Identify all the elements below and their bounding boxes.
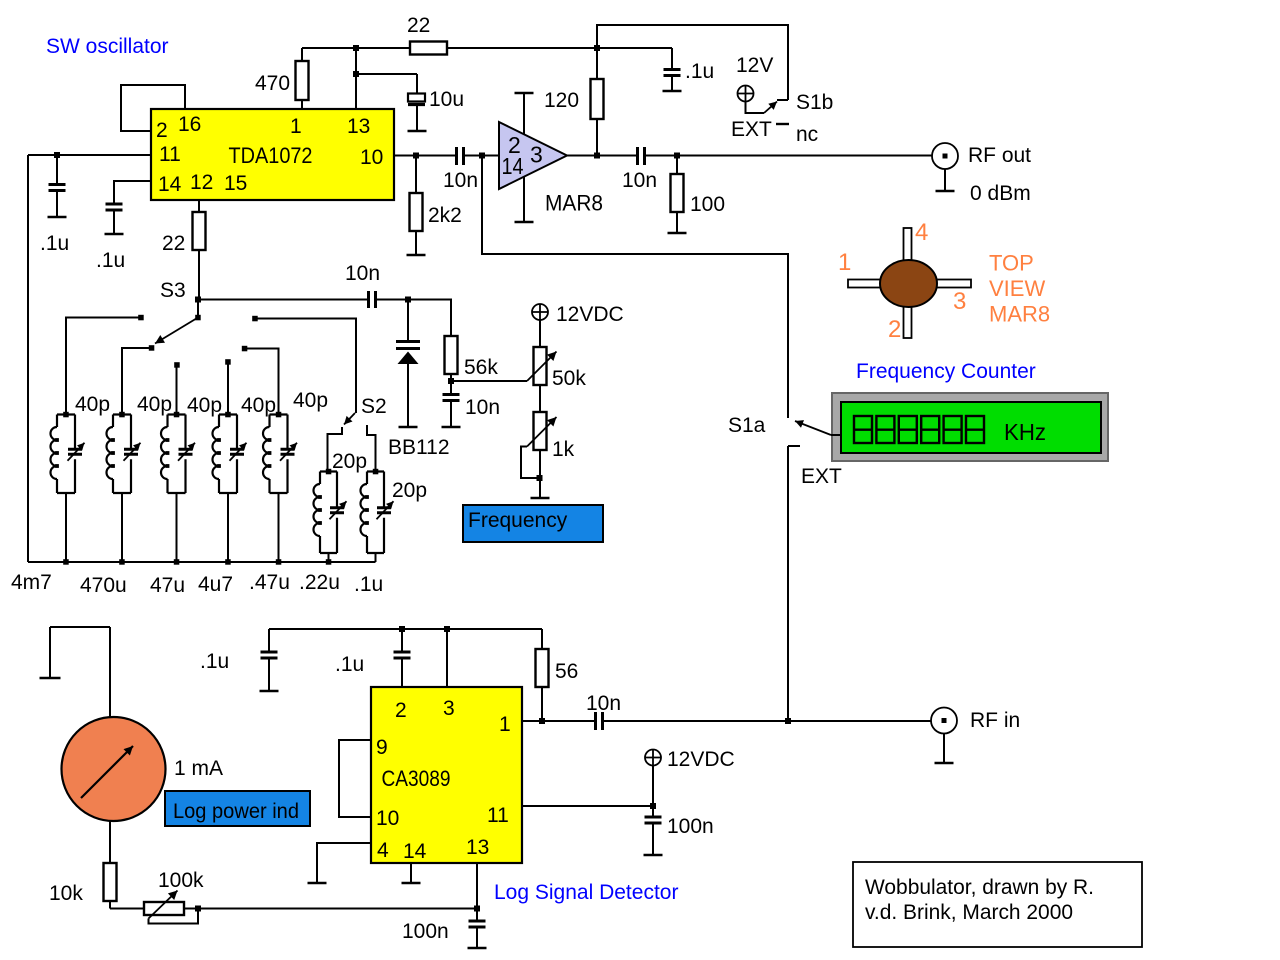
svg-text:47u: 47u — [150, 574, 185, 597]
title box — [853, 862, 1142, 947]
node tank2 top — [119, 412, 125, 418]
capacitor .1u at pin2 — [401, 629, 403, 652]
svg-text:RF out: RF out — [968, 144, 1031, 167]
svg-text:EXT: EXT — [731, 118, 772, 141]
node pin11/C1 — [54, 152, 60, 158]
capacitor 10n at varicap — [450, 381, 452, 394]
capacitor .1u top right — [671, 48, 673, 69]
svg-text:nc: nc — [796, 123, 818, 146]
wire tank5 bottom lead — [278, 493, 280, 562]
svg-text:12: 12 — [190, 171, 213, 194]
node EXT line — [785, 718, 791, 724]
frequency counter display frame — [832, 393, 1108, 461]
connector RF out — [932, 143, 958, 169]
MAR8 top pin stub — [523, 93, 525, 135]
wire to 56 — [541, 629, 543, 649]
wire pin11 — [522, 805, 653, 807]
resistor 2k2 — [415, 156, 417, 194]
svg-text:S2: S2 — [361, 395, 387, 418]
svg-text:1: 1 — [499, 713, 511, 736]
svg-text:15: 15 — [224, 172, 247, 195]
wire top y48 — [302, 47, 410, 49]
meter M1 1mA — [62, 717, 166, 821]
power symbol 12VDC — [532, 304, 548, 320]
svg-text:10: 10 — [376, 807, 399, 830]
svg-text:CA3089: CA3089 — [382, 766, 451, 791]
svg-text:TDA1072: TDA1072 — [229, 143, 313, 168]
svg-text:Log power ind: Log power ind — [173, 800, 299, 823]
node 100 tap — [674, 153, 680, 159]
wire pin9 to pin10 loop — [339, 740, 371, 817]
S3 contact 4 — [225, 359, 231, 365]
wire to pin13 — [184, 908, 477, 910]
svg-text:14: 14 — [403, 840, 427, 863]
label box Log power ind — [165, 791, 310, 826]
LC tank 3 inductor+trimmer 40p — [168, 415, 186, 494]
svg-text:22: 22 — [407, 14, 430, 37]
wire contact2 to tank2 — [122, 348, 152, 415]
switch S1b — [746, 102, 765, 114]
varicap diode BB112 — [407, 300, 409, 342]
wire to MAR8 input — [464, 155, 499, 157]
capacitor 10n coupling 1 — [457, 147, 464, 165]
svg-text:10n: 10n — [465, 396, 500, 419]
svg-text:10n: 10n — [443, 169, 478, 192]
node tank1 top — [63, 412, 68, 418]
resistor 100 — [676, 156, 678, 175]
potentiometer 50k — [534, 347, 547, 385]
MAR8 package body — [880, 260, 937, 307]
wire 100k wiper hook — [149, 909, 199, 924]
svg-text:13: 13 — [347, 115, 370, 138]
node tank6 top — [326, 469, 332, 475]
resistor 22 horizontal — [410, 42, 447, 55]
wire top rail CA3089 — [269, 628, 542, 630]
meter needle — [81, 746, 133, 798]
wire to 56k — [408, 300, 451, 337]
node tank2 bus — [119, 559, 125, 565]
node MAR8 input — [479, 153, 485, 159]
svg-text:100: 100 — [690, 193, 725, 216]
node pin13 — [474, 906, 480, 912]
svg-text:10: 10 — [360, 146, 383, 169]
wire to RF out — [645, 155, 932, 157]
svg-text:3: 3 — [530, 142, 543, 168]
svg-text:20p: 20p — [392, 479, 427, 502]
capacitor 100n at pin11 — [652, 806, 654, 817]
node tank5 top — [276, 412, 282, 418]
wire contact5 to tank5 — [245, 349, 279, 415]
svg-text:13: 13 — [466, 836, 489, 859]
svg-text:TOP: TOP — [989, 251, 1034, 276]
svg-text:MAR8: MAR8 — [989, 302, 1050, 327]
switch S2 — [344, 413, 355, 425]
capacitor .1u at pin11 — [56, 155, 58, 184]
svg-text:470: 470 — [255, 72, 290, 95]
capacitor 10u electrolytic — [408, 94, 425, 102]
wire pin3 — [446, 629, 448, 687]
dash nc mark — [776, 123, 789, 125]
svg-text:16: 16 — [178, 113, 201, 136]
LC tank 1 inductor+trimmer 40p — [57, 415, 75, 494]
svg-text:4: 4 — [915, 219, 928, 246]
capacitor 10n series — [369, 291, 376, 308]
wire pin14 ground — [410, 863, 412, 883]
MAR8 package top view lead 3 — [934, 280, 971, 288]
svg-text:40p: 40p — [241, 394, 276, 417]
svg-text:2: 2 — [156, 119, 168, 142]
MAR8 bottom pin ground — [523, 177, 525, 223]
svg-text:100k: 100k — [158, 869, 204, 892]
wire contact6 to S2 — [255, 319, 356, 414]
svg-text:2: 2 — [888, 316, 901, 343]
switch S1a — [795, 421, 831, 435]
node pin13 top — [353, 45, 359, 51]
resistor 22 vertical — [193, 212, 206, 250]
node BB112 — [405, 297, 411, 303]
svg-text:1k: 1k — [552, 438, 575, 461]
S1a EXT contact — [788, 446, 800, 721]
S3 contact 3 — [174, 362, 180, 368]
svg-text:.47u: .47u — [249, 571, 290, 594]
IC U3 CA3089 — [371, 687, 522, 863]
wire ground bus — [28, 561, 376, 563]
LC tank 2 inductor+trimmer 40p — [113, 415, 131, 494]
svg-text:BB112: BB112 — [388, 436, 450, 459]
node pin3 — [444, 626, 450, 632]
svg-text:40p: 40p — [293, 389, 328, 412]
svg-text:50k: 50k — [552, 367, 586, 390]
resistor 56 — [536, 649, 549, 687]
svg-text:Wobbulator, drawn by R.: Wobbulator, drawn by R. — [865, 876, 1094, 899]
power symbol 12V — [738, 86, 754, 102]
node tank5 bus — [276, 559, 282, 565]
svg-text:10n: 10n — [586, 692, 621, 715]
svg-text:S1b: S1b — [796, 91, 833, 114]
ground 1k — [531, 497, 550, 500]
node 120 bottom — [594, 153, 600, 159]
svg-text:0 dBm: 0 dBm — [970, 182, 1031, 205]
amplifier U2 MAR8 triangle — [499, 122, 567, 189]
S2 contact tank7 — [367, 425, 376, 472]
resistor 470 at pin1 — [301, 48, 303, 109]
svg-text:12VDC: 12VDC — [556, 303, 624, 326]
node tank3 bus — [174, 559, 180, 565]
node tank4 top — [225, 412, 231, 418]
svg-text:56k: 56k — [464, 356, 498, 379]
wire pin13 vertical — [355, 48, 357, 109]
node tank1 bus — [63, 559, 68, 565]
S2 contact tank6 — [328, 427, 343, 472]
svg-text:10u: 10u — [429, 88, 464, 111]
wire pin1 to RF in — [522, 720, 595, 722]
svg-text:4u7: 4u7 — [198, 573, 233, 596]
svg-text:MAR8: MAR8 — [545, 191, 603, 216]
svg-text:Frequency Counter: Frequency Counter — [856, 360, 1036, 383]
node pin2 cap — [399, 626, 405, 632]
svg-text:10n: 10n — [345, 262, 380, 285]
svg-text:10k: 10k — [49, 882, 83, 905]
label box Frequency — [463, 505, 603, 542]
node pin11/100n — [650, 803, 656, 809]
S3 contact 5 — [242, 346, 248, 352]
svg-text:2k2: 2k2 — [428, 204, 462, 227]
svg-text:SW oscillator: SW oscillator — [46, 35, 169, 58]
svg-text:40p: 40p — [75, 393, 110, 416]
frequency counter display screen — [841, 402, 1101, 453]
svg-text:100n: 100n — [667, 815, 714, 838]
wire pin4 ground — [317, 843, 371, 883]
svg-text:12VDC: 12VDC — [667, 748, 735, 771]
S3 contact 2 — [149, 345, 155, 351]
display digits — [854, 416, 872, 443]
LC tank 5 inductor+trimmer 40p — [270, 415, 288, 494]
wire tank4 bottom lead — [227, 493, 229, 562]
node 1k bottom — [537, 475, 543, 481]
svg-text:1: 1 — [838, 249, 851, 276]
S3 contact 1 — [138, 315, 144, 321]
potentiometer 1k — [534, 412, 547, 450]
potentiometer 100k — [144, 902, 184, 915]
svg-text:4m7: 4m7 — [11, 571, 52, 594]
svg-text:1 mA: 1 mA — [174, 757, 223, 780]
wire tank2 bottom lead — [121, 493, 123, 562]
wire tank3 bottom lead — [176, 493, 178, 562]
wire pin13 down — [476, 863, 478, 909]
wire MAR8 input feedback to S1a — [482, 156, 788, 419]
svg-text:4: 4 — [377, 839, 389, 862]
wire 22 to vcc node — [447, 47, 672, 49]
svg-text:v.d. Brink, March 2000: v.d. Brink, March 2000 — [865, 901, 1073, 924]
wire pin10 out — [394, 155, 456, 157]
svg-text:.1u: .1u — [685, 60, 714, 83]
resistor 56k — [445, 336, 458, 374]
svg-text:10n: 10n — [622, 169, 657, 192]
wire wiper 50k — [451, 380, 527, 382]
node 2k2 tap — [413, 153, 419, 159]
wire tank1 bottom lead — [65, 493, 67, 562]
switch S3 pole — [197, 300, 199, 318]
svg-text:.1u: .1u — [335, 653, 364, 676]
svg-text:40p: 40p — [187, 394, 222, 417]
svg-text:Log Signal Detector: Log Signal Detector — [494, 881, 678, 904]
wire vcc riser and top rail to S1b — [597, 25, 788, 100]
MAR8 package top view lead 1 — [848, 280, 883, 288]
wire S3 bus right — [198, 299, 368, 301]
node tank6 bus — [326, 559, 332, 565]
svg-text:S1a: S1a — [728, 414, 766, 437]
capacitor 10n output — [596, 712, 603, 730]
LC tank 6 inductor+trimmer 20p — [320, 472, 337, 554]
wire pin11 to left rail — [28, 155, 151, 562]
svg-text:.1u: .1u — [200, 650, 229, 673]
svg-text:Frequency: Frequency — [468, 509, 568, 532]
svg-text:100n: 100n — [402, 920, 449, 943]
MAR8 package top view lead 4 — [904, 228, 912, 263]
node vcc — [594, 45, 600, 51]
svg-text:11: 11 — [159, 143, 181, 166]
node 100k out — [195, 906, 201, 912]
svg-text:11: 11 — [487, 804, 509, 827]
LC tank 7 inductor+trimmer 20p — [367, 472, 384, 554]
capacitor 100n at pin13 — [476, 909, 478, 921]
node 10u tap — [353, 71, 359, 77]
wire pin14 — [114, 181, 151, 203]
svg-text:20p: 20p — [332, 450, 367, 473]
wire contact3 to tank3 — [176, 365, 178, 415]
node tank3 top — [174, 412, 180, 418]
svg-text:2: 2 — [395, 699, 407, 722]
node 56k/10n — [448, 378, 454, 384]
svg-text:3: 3 — [443, 697, 455, 720]
capacitor 10n coupling 2 — [638, 147, 645, 165]
svg-text:12V: 12V — [736, 54, 773, 77]
ground top-left of meter — [49, 627, 51, 678]
svg-text:.1u: .1u — [96, 249, 125, 272]
capacitor .1u bottom 1 — [268, 629, 270, 652]
svg-text:EXT: EXT — [801, 465, 842, 488]
svg-text:14: 14 — [502, 153, 524, 179]
resistor 10k — [104, 863, 117, 901]
capacitor .1u at pin14 — [106, 204, 123, 210]
node tank4 bus — [225, 559, 231, 565]
wire to 10u — [356, 74, 417, 93]
svg-text:14: 14 — [158, 173, 182, 196]
svg-text:.1u: .1u — [40, 232, 69, 255]
svg-text:VIEW: VIEW — [989, 276, 1045, 301]
svg-text:KHz: KHz — [1004, 419, 1046, 445]
wire MAR8 output — [567, 155, 637, 157]
svg-text:470u: 470u — [80, 574, 127, 597]
wire meter to 10k — [109, 821, 111, 863]
S3 contact 6 — [252, 316, 258, 322]
IC U1 TDA1072 — [151, 109, 394, 200]
svg-text:.22u: .22u — [299, 571, 340, 594]
wire pin12 to S3 bus — [198, 200, 200, 212]
svg-text:1: 1 — [290, 115, 302, 138]
svg-text:S3: S3 — [160, 279, 186, 302]
wire contact4 to tank4 — [227, 362, 229, 415]
wire to meter — [50, 627, 110, 718]
node 56 bottom — [539, 718, 545, 724]
wire 1k wiper hook — [521, 447, 540, 479]
resistor 120 vertical — [596, 48, 598, 79]
wire contact1 to tank1 — [66, 318, 141, 415]
wire tank7 bottom lead — [375, 553, 377, 562]
svg-text:40p: 40p — [137, 393, 172, 416]
node S3 — [195, 297, 201, 303]
MAR8 package top view lead 2 — [904, 304, 912, 338]
svg-text:9: 9 — [376, 736, 388, 759]
svg-text:120: 120 — [544, 89, 579, 112]
connector RF in — [931, 708, 957, 734]
svg-text:.1u: .1u — [354, 573, 383, 596]
power symbol 12VDC 2 — [645, 750, 661, 766]
wire pin2 to pin16 loop — [121, 85, 185, 131]
svg-text:3: 3 — [953, 288, 966, 315]
node tank7 top — [373, 469, 379, 475]
svg-text:RF in: RF in — [970, 709, 1020, 732]
LC tank 4 inductor+trimmer 40p — [219, 415, 237, 494]
wire tank6 bottom lead — [328, 553, 330, 562]
svg-text:22: 22 — [162, 232, 185, 255]
svg-text:56: 56 — [555, 660, 578, 683]
